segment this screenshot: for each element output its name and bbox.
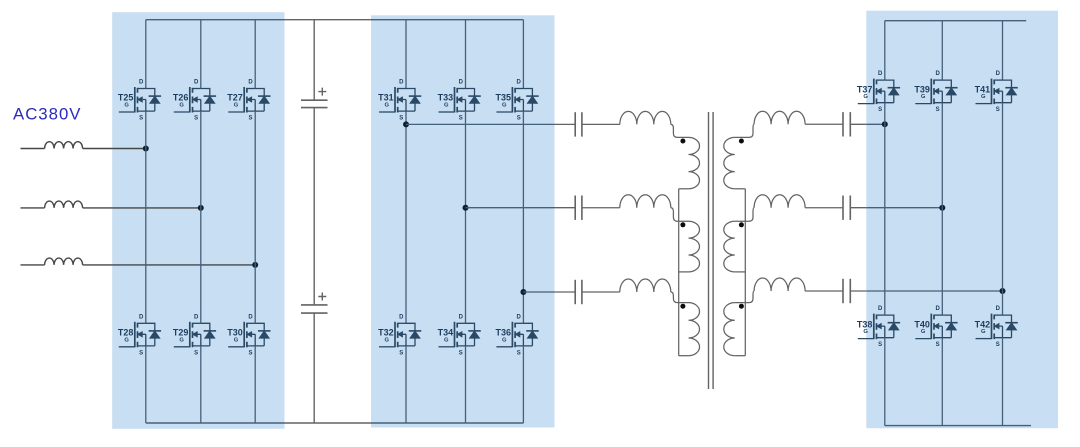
svg-text:T29: T29 <box>173 328 189 338</box>
wire: DC- bottom bus (rectifier section) <box>146 422 285 424</box>
output rectifier block background <box>866 11 1058 429</box>
capacitor: series resonant phase 2 (primary) <box>575 196 582 220</box>
svg-text:G: G <box>444 103 449 109</box>
wire: output leg 1 drain riser <box>884 21 886 80</box>
svg-text:S: S <box>936 107 940 113</box>
wire: box edge to output rectifier leg 1 <box>866 123 885 125</box>
svg-text:T37: T37 <box>857 84 873 94</box>
transistor T36 <box>495 314 538 356</box>
svg-text:G: G <box>234 337 239 343</box>
transistor T39 <box>914 71 957 113</box>
svg-text:T30: T30 <box>227 328 243 338</box>
wire: secondary winding 1 to inductor <box>735 124 754 137</box>
wire: inverter leg 2 midpoint <box>465 111 467 323</box>
inductor: series resonant phase 1 (primary) <box>620 111 671 124</box>
wire: output leg 1 midpoint <box>884 103 886 315</box>
svg-text:T27: T27 <box>227 93 243 103</box>
svg-text:G: G <box>124 337 129 343</box>
wire: rectifier leg 3 midpoint <box>254 111 256 323</box>
wire: inductor to capacitor phase 1 (secondary) <box>805 123 843 125</box>
wire: inverter leg 1 source drop <box>405 346 407 423</box>
wire: DC link middle <box>313 108 315 305</box>
transistor T31 <box>378 80 421 122</box>
svg-text:G: G <box>385 337 390 343</box>
wire: box edge to series capacitor phase 1 <box>555 123 576 125</box>
svg-text:T28: T28 <box>118 328 134 338</box>
svg-text:G: G <box>921 94 926 100</box>
svg-text:S: S <box>996 107 1000 113</box>
wire: DC- bottom bus (inverter section) <box>371 422 523 424</box>
node: phase 2 junction on rectifier leg <box>198 205 204 211</box>
transistor T25 <box>118 80 161 122</box>
svg-text:S: S <box>248 116 252 122</box>
node: inverter phase 3 output junction <box>520 289 526 295</box>
wire: output leg 3 midpoint <box>1002 103 1004 315</box>
svg-text:D: D <box>248 314 253 320</box>
svg-text:T34: T34 <box>438 328 454 338</box>
svg-text:D: D <box>996 71 1001 77</box>
node: primary winding 3 polarity dot <box>680 304 685 309</box>
svg-text:S: S <box>399 116 403 122</box>
wire: inverter phase 3 to box edge <box>523 291 554 293</box>
wire: secondary winding 3 bottom to rail <box>735 355 746 357</box>
wire: DC+ top bus (link section) <box>285 19 372 21</box>
svg-text:D: D <box>935 71 940 77</box>
svg-text:G: G <box>179 103 184 109</box>
svg-text:G: G <box>502 103 507 109</box>
wire: inverter leg 3 source drop <box>522 346 524 423</box>
wire: capacitor to box edge phase 2 <box>850 207 866 209</box>
rectifier block background <box>112 12 284 429</box>
inverter block background <box>371 15 555 427</box>
wire: AC input phase 2 lead <box>21 207 45 209</box>
wire: box edge to output rectifier leg 2 <box>866 207 942 209</box>
svg-text:D: D <box>878 306 883 312</box>
svg-text:G: G <box>444 337 449 343</box>
wire: secondary winding 2 bottom to rail <box>735 271 746 273</box>
svg-text:G: G <box>385 103 390 109</box>
wire: AC input phase 3 to bridge leg <box>83 264 256 266</box>
inductor: series resonant phase 2 (primary) <box>620 195 671 208</box>
wire: capacitor to inductor phase 1 (primary) <box>582 123 620 125</box>
transistor T28 <box>118 314 161 356</box>
wire: rectifier leg 2 midpoint <box>200 111 202 323</box>
svg-text:T42: T42 <box>975 319 991 329</box>
wire: DC+ top bus (inverter section) <box>371 19 523 21</box>
svg-text:D: D <box>248 80 253 86</box>
transformer core <box>709 112 714 389</box>
svg-text:S: S <box>248 350 252 356</box>
wire: inverter phase 1 to box edge <box>406 123 555 125</box>
wire: box edge to series capacitor phase 3 <box>555 291 576 293</box>
svg-text:D: D <box>878 71 883 77</box>
wire: output leg 2 source drop <box>941 338 943 426</box>
capacitor: series resonant phase 1 (primary) <box>575 112 582 136</box>
capacitor: DC bus lower <box>301 305 328 313</box>
wire: rectifier leg 1 drain riser <box>145 20 147 89</box>
transistor T38 <box>857 306 900 348</box>
transistor T40 <box>914 306 957 348</box>
wire: rectifier leg 2 source drop <box>200 346 202 423</box>
wire: inductor to primary winding 3 <box>671 292 689 303</box>
svg-text:T38: T38 <box>857 319 873 329</box>
node: primary winding 1 polarity dot <box>680 139 685 144</box>
wire: output leg 2 midpoint <box>941 103 943 315</box>
wire: inductor to primary winding 1 <box>671 124 689 137</box>
wire: secondary winding 1 bottom to rail <box>735 188 746 190</box>
svg-text:D: D <box>139 314 144 320</box>
wire: AC input phase 3 lead <box>21 264 45 266</box>
wire: rectifier leg 3 source drop <box>254 346 256 423</box>
transistor T27 <box>227 80 270 122</box>
node: phase 3 junction on rectifier leg <box>252 262 258 268</box>
wire: output leg 2 drain riser <box>941 21 943 80</box>
inductor: series resonant phase 2 (secondary) <box>754 195 805 208</box>
transformer secondary winding 1 <box>724 137 735 188</box>
inductor: series resonant phase 1 (secondary) <box>754 111 805 124</box>
node: primary winding 2 polarity dot <box>680 222 685 227</box>
svg-text:AC380V: AC380V <box>13 105 82 124</box>
svg-text:T31: T31 <box>378 93 394 103</box>
svg-text:T40: T40 <box>914 319 930 329</box>
svg-text:S: S <box>194 350 198 356</box>
wire: DC+ top bus (rectifier section) <box>146 19 285 21</box>
node: inverter phase 1 output junction <box>403 121 409 127</box>
wire: rectifier leg 1 midpoint <box>145 111 147 323</box>
svg-text:T39: T39 <box>914 84 930 94</box>
wire: DC- bottom bus (link section) <box>285 422 372 424</box>
svg-text:G: G <box>981 94 986 100</box>
svg-text:T36: T36 <box>495 328 511 338</box>
wire: inverter leg 1 drain riser <box>405 20 407 89</box>
wire: inverter leg 1 midpoint <box>405 111 407 323</box>
transistor T41 <box>975 71 1018 113</box>
svg-text:T35: T35 <box>495 93 511 103</box>
wire: secondary interconnect rail <box>744 189 746 356</box>
inductor: AC input filter phase 3 <box>45 258 83 265</box>
wire: inductor to primary winding 2 <box>671 208 689 222</box>
wire: capacitor to box edge phase 3 <box>850 290 866 292</box>
wire: primary winding 2 bottom to rail <box>679 271 689 273</box>
transistor T30 <box>227 314 270 356</box>
svg-text:T41: T41 <box>975 84 991 94</box>
inductor: AC input filter phase 1 <box>45 142 83 149</box>
wire: inverter phase 2 to box edge <box>466 207 555 209</box>
wire: DC link upper <box>313 20 315 101</box>
capacitor: series resonant phase 3 (secondary) <box>843 279 850 303</box>
wire: AC input phase 1 to bridge leg <box>83 148 146 150</box>
wire: box edge to output rectifier leg 3 <box>866 290 1002 292</box>
svg-text:D: D <box>517 80 522 86</box>
wire: secondary winding 3 to inductor <box>735 291 754 303</box>
svg-text:G: G <box>863 94 868 100</box>
inductor: series resonant phase 3 (secondary) <box>754 278 805 291</box>
transistor T29 <box>173 314 216 356</box>
wire: inductor to capacitor phase 2 (secondary) <box>805 207 843 209</box>
polarity + lower capacitor <box>318 293 326 301</box>
transistor T34 <box>438 314 481 356</box>
node: secondary winding 3 polarity dot <box>739 304 744 309</box>
transistor T26 <box>173 80 216 122</box>
wire: primary winding 1 bottom to rail <box>679 188 689 190</box>
svg-text:D: D <box>139 80 144 86</box>
svg-text:S: S <box>996 342 1000 348</box>
node: output rectifier phase 1 junction <box>882 121 888 127</box>
svg-text:D: D <box>996 306 1001 312</box>
wire: inverter leg 2 source drop <box>465 346 467 423</box>
wire: inductor to capacitor phase 3 (secondary) <box>805 290 843 292</box>
svg-text:S: S <box>517 350 521 356</box>
svg-text:S: S <box>936 342 940 348</box>
wire: capacitor to inductor phase 3 (primary) <box>582 291 620 293</box>
svg-text:D: D <box>194 80 199 86</box>
wire: primary winding 3 bottom to rail <box>679 355 689 357</box>
svg-text:T26: T26 <box>173 93 189 103</box>
capacitor: series resonant phase 3 (primary) <box>575 280 582 304</box>
inductor: series resonant phase 3 (primary) <box>620 279 671 292</box>
wire: inverter leg 2 drain riser <box>465 20 467 89</box>
transformer primary winding 3 <box>689 303 700 356</box>
transistor T37 <box>857 71 900 113</box>
node: secondary winding 2 polarity dot <box>739 222 744 227</box>
svg-text:S: S <box>399 350 403 356</box>
svg-text:S: S <box>878 107 882 113</box>
polarity + upper capacitor <box>318 88 326 96</box>
svg-text:S: S <box>517 116 521 122</box>
transformer secondary winding 2 <box>724 221 735 272</box>
wire: output leg 1 source drop <box>884 338 886 426</box>
svg-text:D: D <box>459 80 464 86</box>
svg-text:S: S <box>878 342 882 348</box>
svg-text:G: G <box>234 103 239 109</box>
svg-text:S: S <box>194 116 198 122</box>
wire: output leg 3 drain riser <box>1002 21 1004 80</box>
transistor T42 <box>975 306 1018 348</box>
wire: capacitor to inductor phase 2 (primary) <box>582 207 620 209</box>
wire: DC link lower <box>313 313 315 423</box>
wire: DC- bottom bus (output rectifier) <box>885 425 1031 427</box>
capacitor: DC bus upper <box>301 100 328 107</box>
svg-text:G: G <box>863 329 868 335</box>
wire: primary interconnect rail <box>678 189 680 356</box>
transformer secondary winding 3 <box>724 303 735 356</box>
svg-text:G: G <box>921 329 926 335</box>
node: secondary winding 1 polarity dot <box>739 139 744 144</box>
transformer primary winding 2 <box>689 221 700 272</box>
svg-text:D: D <box>517 314 522 320</box>
inductor: AC input filter phase 2 <box>45 201 83 208</box>
svg-text:G: G <box>981 329 986 335</box>
transistor T35 <box>495 80 538 122</box>
svg-text:D: D <box>399 80 404 86</box>
svg-text:D: D <box>459 314 464 320</box>
wire: rectifier leg 2 drain riser <box>200 20 202 89</box>
wire: AC input phase 1 lead <box>21 148 45 150</box>
transistor T33 <box>438 80 481 122</box>
svg-text:T33: T33 <box>438 93 454 103</box>
wire: rectifier leg 3 drain riser <box>254 20 256 89</box>
wire: DC+ top bus (output rectifier) <box>885 20 1026 22</box>
capacitor: series resonant phase 2 (secondary) <box>843 196 850 220</box>
svg-text:D: D <box>935 306 940 312</box>
svg-text:D: D <box>399 314 404 320</box>
node: output rectifier phase 3 junction <box>1000 288 1006 294</box>
svg-text:G: G <box>179 337 184 343</box>
svg-text:T32: T32 <box>378 328 394 338</box>
svg-text:G: G <box>502 337 507 343</box>
transformer primary winding 1 <box>689 137 700 188</box>
wire: output leg 3 source drop <box>1002 338 1004 426</box>
transistor T32 <box>378 314 421 356</box>
capacitor: series resonant phase 1 (secondary) <box>843 112 850 136</box>
wire: box edge to series capacitor phase 2 <box>555 207 576 209</box>
wire: capacitor to box edge phase 1 <box>850 123 866 125</box>
node: phase 1 junction on rectifier leg <box>143 146 149 152</box>
svg-text:S: S <box>139 350 143 356</box>
wire: secondary winding 2 to inductor <box>735 208 754 222</box>
wire: inverter leg 3 drain riser <box>522 20 524 89</box>
svg-text:S: S <box>459 350 463 356</box>
wire: rectifier leg 1 source drop <box>145 346 147 423</box>
svg-text:S: S <box>139 116 143 122</box>
node: inverter phase 2 output junction <box>463 205 469 211</box>
svg-text:T25: T25 <box>118 93 134 103</box>
node: output rectifier phase 2 junction <box>939 205 945 211</box>
svg-text:S: S <box>459 116 463 122</box>
svg-text:D: D <box>194 314 199 320</box>
wire: inverter leg 3 midpoint <box>522 111 524 323</box>
wire: AC input phase 2 to bridge leg <box>83 207 201 209</box>
svg-text:G: G <box>124 103 129 109</box>
